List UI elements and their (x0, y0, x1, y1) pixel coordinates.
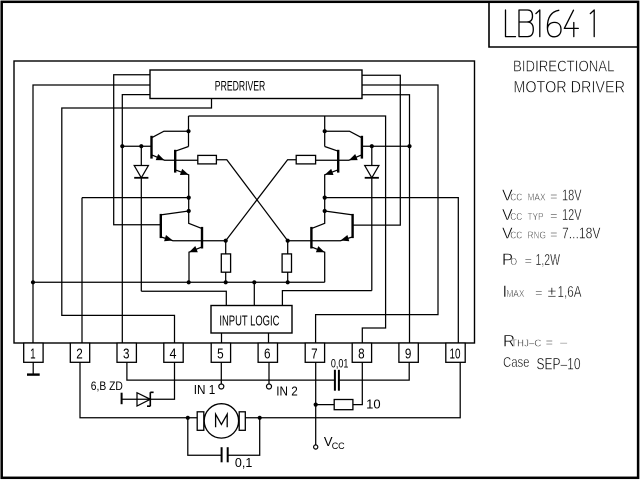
svg-text:=: = (525, 253, 533, 268)
svg-text:6: 6 (264, 345, 271, 362)
svg-text:18V: 18V (562, 187, 582, 204)
svg-text:5: 5 (217, 345, 224, 362)
svg-text:7: 7 (311, 345, 318, 362)
svg-text:9: 9 (405, 345, 412, 362)
svg-text:=: = (546, 334, 554, 349)
svg-text:RNG: RNG (528, 230, 547, 241)
svg-text:BIDIRECTIONAL: BIDIRECTIONAL (513, 59, 615, 76)
svg-text:CC: CC (332, 441, 345, 451)
svg-text:=: = (550, 226, 558, 241)
svg-text:THJ–C: THJ–C (511, 338, 542, 349)
svg-text:12V: 12V (562, 207, 582, 224)
svg-text:=: = (535, 285, 543, 300)
svg-text:IN 1: IN 1 (194, 383, 216, 397)
svg-text:SEP–10: SEP–10 (537, 356, 581, 374)
svg-text:CC: CC (510, 230, 522, 241)
svg-text:PREDRIVER: PREDRIVER (215, 79, 266, 94)
svg-text:Case: Case (503, 354, 530, 371)
svg-text:6,B ZD: 6,B ZD (91, 379, 123, 393)
svg-text:–: – (560, 334, 568, 349)
svg-text:IN 2: IN 2 (276, 384, 298, 398)
svg-text:O: O (511, 257, 518, 268)
svg-text:10: 10 (366, 397, 380, 412)
svg-text:3: 3 (123, 345, 130, 362)
svg-text:8: 8 (358, 345, 365, 362)
svg-text:7...18V: 7...18V (562, 225, 601, 242)
svg-text:1: 1 (30, 345, 36, 362)
svg-text:0,1: 0,1 (235, 456, 252, 470)
svg-text:MAX: MAX (506, 289, 524, 300)
svg-text:=: = (550, 188, 558, 203)
svg-text:CC: CC (510, 192, 522, 203)
svg-text:1,6A: 1,6A (558, 284, 582, 301)
svg-text:MAX: MAX (528, 192, 546, 203)
svg-text:1,2W: 1,2W (536, 252, 561, 269)
svg-text:TYP: TYP (528, 212, 544, 223)
svg-text:INPUT LOGIC: INPUT LOGIC (219, 313, 279, 330)
svg-text:±: ± (548, 284, 557, 301)
svg-text:4: 4 (170, 345, 177, 362)
svg-text:CC: CC (510, 212, 522, 223)
svg-text:2: 2 (76, 345, 83, 362)
svg-text:10: 10 (450, 345, 461, 362)
svg-text:MOTOR DRIVER: MOTOR DRIVER (513, 78, 625, 96)
svg-text:0,01: 0,01 (331, 356, 349, 370)
svg-text:=: = (550, 208, 558, 223)
